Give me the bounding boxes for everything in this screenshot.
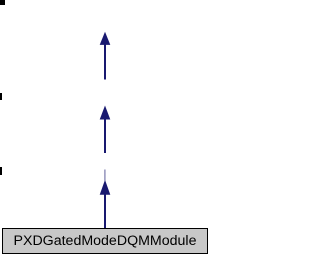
cropped box fragment top-left corner bbox=[0, 0, 5, 5]
arrow 3 head bbox=[100, 180, 111, 195]
arrow 1 tail bbox=[104, 45, 106, 80]
cropped box fragment left edge upper bbox=[0, 93, 2, 100]
arrow 3 tail bbox=[104, 194, 106, 228]
inheritance arrows (midnightblue, pointing up) bbox=[0, 0, 211, 261]
class box PXDGatedModeDQMModule bbox=[2, 228, 208, 254]
cropped box fragment left edge lower bbox=[0, 167, 2, 175]
arrow 3 upper line stub bbox=[104, 170, 105, 181]
arrow 2 head bbox=[100, 106, 111, 120]
arrow 1 head bbox=[100, 32, 111, 45]
arrow 2 tail bbox=[104, 119, 106, 153]
